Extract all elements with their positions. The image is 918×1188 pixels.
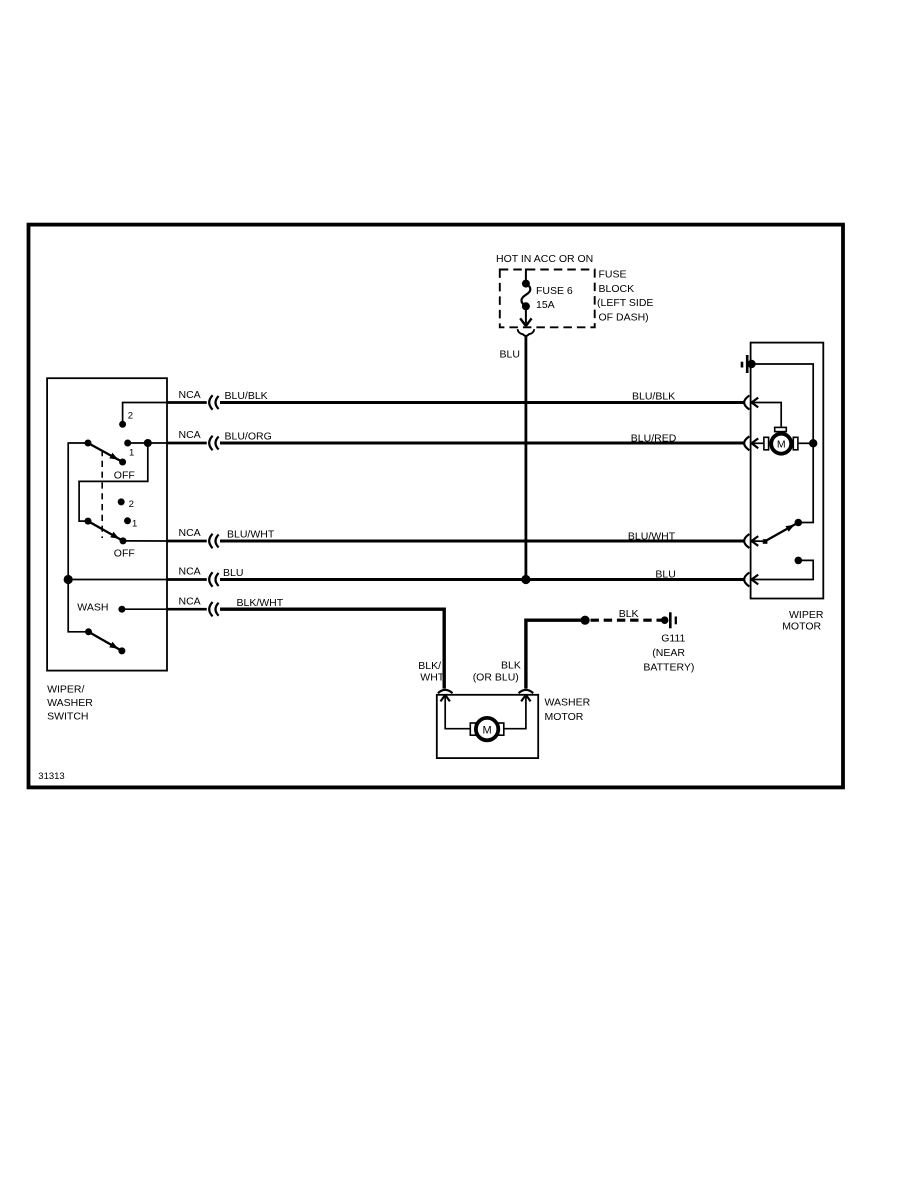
switch pole upper (blade to OFF) xyxy=(85,440,92,447)
node: junction motor/ground bus xyxy=(809,439,817,447)
svg-text:WIPER: WIPER xyxy=(789,609,824,621)
wire: BLU/BLK to motor top brush xyxy=(752,403,781,427)
connector arc+arrow BLK into washer motor xyxy=(519,690,534,693)
connector arc+arrow BLU/RED into wiper motor xyxy=(744,436,749,450)
wire: terminal 1 to box edge on BLU/ORG xyxy=(128,442,167,444)
node: switch terminal 2 (lower) xyxy=(118,498,125,505)
wire: BLU/WHT to park switch pivot xyxy=(752,540,765,542)
svg-text:HOT IN ACC OR ON: HOT IN ACC OR ON xyxy=(496,253,593,265)
svg-text:MOTOR: MOTOR xyxy=(782,621,821,633)
wire: BLU/RED main xyxy=(220,441,744,444)
svg-text:FUSE: FUSE xyxy=(599,268,627,280)
svg-text:BLU/RED: BLU/RED xyxy=(631,432,677,444)
wire: OFF contact to box edge on BLU/WHT xyxy=(123,540,167,542)
switch pole wash (blade open) xyxy=(85,628,92,635)
node: park switch contact (run) xyxy=(795,519,803,527)
svg-text:BLU: BLU xyxy=(655,568,675,580)
connector arc+arrow BLU into wiper motor xyxy=(744,573,749,587)
svg-text:OF DASH): OF DASH) xyxy=(599,312,649,324)
svg-text:WASH: WASH xyxy=(77,602,108,614)
svg-text:BLOCK: BLOCK xyxy=(599,283,635,295)
ground G (wiper motor case) xyxy=(741,362,744,368)
svg-text:BLU: BLU xyxy=(500,349,520,361)
wire: BLU/WHT main xyxy=(220,539,744,542)
node: wash contact on BLK/WHT xyxy=(118,606,125,613)
motor M1 (wiper) xyxy=(775,427,787,431)
wire: BLU/BLK main xyxy=(220,401,744,404)
wire: BLU stub from switch xyxy=(167,578,207,581)
svg-text:NCA: NCA xyxy=(179,566,201,578)
wire: BLU inside switch xyxy=(68,579,167,581)
wire: BLU/WHT stub from switch xyxy=(167,540,207,543)
connector NCA row3 (double arc) xyxy=(209,534,212,548)
svg-text:M: M xyxy=(777,439,786,451)
svg-text:(OR BLU): (OR BLU) xyxy=(473,672,519,684)
connector arc+arrow BLU/WHT into wiper motor xyxy=(744,534,749,548)
svg-text:WIPER/: WIPER/ xyxy=(47,683,84,695)
svg-text:MOTOR: MOTOR xyxy=(545,711,584,723)
washer motor box xyxy=(437,695,538,758)
wire: BLK dashed to G111 xyxy=(591,619,662,622)
svg-text:NCA: NCA xyxy=(179,527,201,539)
ground G111 xyxy=(661,616,669,624)
fuse output connector cup xyxy=(518,329,535,336)
svg-text:BLU/WHT: BLU/WHT xyxy=(628,530,676,542)
node: junction on BLU/ORG inside switch xyxy=(144,439,152,447)
svg-text:BLU/WHT: BLU/WHT xyxy=(227,529,275,541)
connector arc+arrow BLK/WHT into washer motor xyxy=(438,690,453,693)
wire: BLU/ORG stub from switch xyxy=(167,442,207,445)
svg-text:15A: 15A xyxy=(536,299,555,311)
svg-text:BLU/ORG: BLU/ORG xyxy=(225,431,272,443)
svg-text:NCA: NCA xyxy=(179,389,201,401)
svg-text:WASHER: WASHER xyxy=(545,697,591,709)
connector NCA row5 (double arc) xyxy=(209,602,212,616)
svg-text:OFF: OFF xyxy=(114,470,135,482)
wire: S-link from terminal 1 junction to lower pole xyxy=(79,443,148,521)
svg-text:1: 1 xyxy=(132,519,137,530)
svg-text:(LEFT SIDE: (LEFT SIDE xyxy=(597,297,653,309)
svg-text:BATTERY): BATTERY) xyxy=(643,662,694,674)
node: switch terminal 2 (upper) xyxy=(119,421,126,428)
park switch blade xyxy=(763,539,768,544)
fuse block dashed box xyxy=(500,270,595,328)
wire: terminal 2 riser to BLU/BLK xyxy=(123,403,167,425)
wire: BLU vertical from fuse to BLU line xyxy=(525,335,528,579)
wire: BLK/WHT stub from switch xyxy=(167,608,207,611)
node: junction on BLK ground wire xyxy=(581,616,590,625)
svg-text:31313: 31313 xyxy=(38,771,64,782)
node: switch terminal 1 (upper) xyxy=(124,440,131,447)
node: park switch contact (park) xyxy=(795,557,803,565)
wire: park contact to BLU entry xyxy=(752,560,813,579)
svg-text:BLK: BLK xyxy=(619,608,639,620)
svg-text:M: M xyxy=(483,724,492,736)
svg-text:WHT: WHT xyxy=(420,672,444,684)
connector NCA row1 (double arc) xyxy=(209,395,212,409)
wire: washer motor internal right xyxy=(504,696,526,729)
svg-text:BLK/WHT: BLK/WHT xyxy=(237,597,284,609)
svg-text:NCA: NCA xyxy=(179,595,201,607)
svg-text:BLU/BLK: BLU/BLK xyxy=(225,390,268,402)
svg-text:SWITCH: SWITCH xyxy=(47,711,88,723)
fuse output arrow xyxy=(525,306,527,323)
wire: motor right brush to ground bus xyxy=(798,442,813,444)
svg-text:2: 2 xyxy=(128,411,133,422)
svg-text:OFF: OFF xyxy=(114,548,135,560)
wire: BLU/RED to motor left brush xyxy=(752,442,764,444)
svg-text:1: 1 xyxy=(129,447,134,458)
svg-text:WASHER: WASHER xyxy=(47,697,93,709)
node: junction BLU line / common bus xyxy=(64,575,73,584)
wiper/washer switch box xyxy=(47,378,167,670)
svg-text:BLK/: BLK/ xyxy=(418,660,441,672)
svg-text:G111: G111 xyxy=(661,633,685,645)
wire: BLK ground wire from washer motor xyxy=(526,620,585,688)
connector arc+arrow BLU/BLK into wiper motor xyxy=(744,396,749,410)
mechanical link (dashed) xyxy=(101,450,103,538)
wire: ground bus to park switch xyxy=(752,364,814,523)
wire: common bus from upper pole to wash pole xyxy=(68,443,88,632)
wire: BLU/BLK stub from switch xyxy=(167,401,207,404)
svg-text:BLK: BLK xyxy=(501,660,521,672)
svg-text:NCA: NCA xyxy=(179,429,201,441)
node: switch terminal 1 (lower) xyxy=(124,517,131,524)
svg-text:(NEAR: (NEAR xyxy=(652,647,685,659)
wire: BLK/WHT main with drop to washer motor xyxy=(220,609,444,688)
wire: BLU main xyxy=(220,578,744,581)
wire: washer motor internal left xyxy=(445,696,470,729)
motor M2 (washer) xyxy=(470,723,475,735)
connector NCA row4 (double arc) xyxy=(209,572,212,586)
wire: feed stub into fuse xyxy=(525,269,527,285)
wire: wash contact to box edge xyxy=(122,608,167,610)
fuse F6 15A (squiggle with end dots) xyxy=(522,280,530,288)
svg-text:2: 2 xyxy=(129,499,134,510)
svg-text:BLU/BLK: BLU/BLK xyxy=(632,391,675,403)
node: junction fuse feed / BLU line xyxy=(521,575,530,584)
svg-text:FUSE 6: FUSE 6 xyxy=(536,285,573,297)
svg-text:BLU: BLU xyxy=(223,567,243,579)
switch pole lower (blade to OFF on BLU/WHT) xyxy=(85,518,92,525)
wiper motor box xyxy=(751,343,824,599)
connector NCA row2 (double arc) xyxy=(209,436,212,450)
